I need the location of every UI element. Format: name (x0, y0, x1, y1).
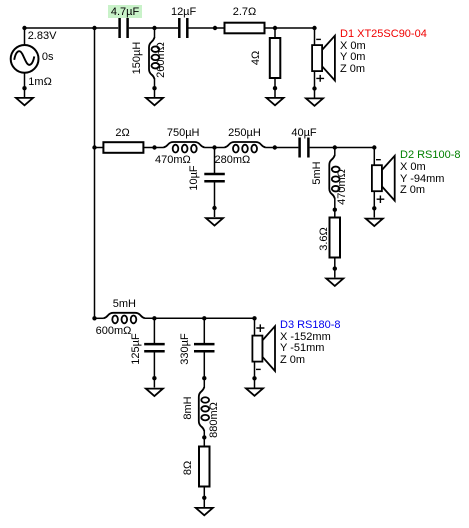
label C6 value 330uF (181, 333, 193, 364)
capacitor C6 330uF (194, 344, 215, 351)
label C3 value 40uF (291, 128, 316, 140)
resistor R5 8ohm (199, 447, 210, 487)
wire bus1 seg d (265, 27, 315, 29)
capacitor C1 4.7uF (120, 18, 128, 38)
label L2 resistance 470mohm (155, 155, 191, 167)
label R5 value 8ohm (183, 461, 195, 475)
node dots row2 (92, 145, 376, 270)
wire bus2 seg e (310, 147, 375, 149)
label R3 value 2ohm (115, 128, 129, 140)
ground D3 (246, 388, 263, 395)
wire R2 shunt top (274, 28, 276, 38)
D3 minus sign (256, 368, 261, 370)
wire D2 top (373, 148, 375, 166)
wire R2 shunt bottom (274, 78, 276, 97)
capacitor C4 10uF (204, 174, 225, 181)
wire C6 top (203, 318, 205, 343)
label C1 value 4.7uF highlighted (108, 5, 142, 18)
wire C6 to L6 (203, 352, 205, 388)
wire L1 shunt top (154, 28, 156, 38)
ground C5 (146, 389, 163, 396)
resistor R3 2ohm (103, 142, 143, 153)
ground C4 (206, 218, 223, 225)
wire V1 bottom stub (24, 73, 26, 97)
capacitor C5 125uF (144, 344, 165, 351)
inductor L3 250uH (225, 142, 266, 153)
label L2 value 750uH (167, 128, 200, 140)
ground D2 (366, 219, 383, 226)
speaker D1 (312, 36, 335, 81)
wire L4 shunt top (334, 148, 336, 156)
speaker D3 text block (280, 320, 341, 367)
ground R5 (196, 508, 213, 515)
speaker D2 text block (400, 150, 461, 197)
inductor L6 8mH (199, 387, 209, 431)
wire C4 shunt top (214, 148, 216, 174)
speaker D3 (252, 326, 275, 371)
wire R4 to ground (334, 258, 336, 278)
wire L4 to R4 (334, 198, 336, 218)
label C2 value 12uF (171, 7, 196, 19)
label V1 delay 0s (42, 52, 54, 64)
D2 minus sign (376, 159, 381, 161)
wire bus3 seg a (95, 317, 104, 319)
label R4 value 3.6ohm (319, 227, 331, 251)
label L3 value 250uH (228, 128, 261, 140)
inductor L1 150uH (149, 37, 159, 79)
label L1 resistance 260mohm (157, 43, 169, 79)
speaker D1 text block (340, 29, 427, 76)
wire bus2 seg c (205, 147, 225, 149)
label R2 value 4ohm (251, 50, 263, 64)
voltage source V1 (11, 45, 39, 73)
label L5 resistance 600mohm (96, 326, 132, 338)
inductor L4 5mH (329, 155, 339, 199)
wire V1 top stub (24, 28, 26, 45)
ground L1 (146, 98, 163, 105)
label L5 value 5mH (113, 299, 136, 311)
wire bus1 seg c (189, 27, 225, 29)
inductor L2 750uH (164, 142, 205, 153)
wire C5 shunt bottom (153, 352, 155, 388)
capacitor C2 12uF (179, 18, 187, 38)
inductor L5 5mH woofer (104, 313, 146, 324)
label L6 value 8mH (183, 397, 195, 420)
label C4 value 10uF (189, 165, 201, 190)
D1 plus sign (316, 75, 324, 82)
wire L6 to R5 (203, 431, 205, 447)
capacitor C3 40uF (300, 138, 309, 158)
wire L1 shunt bottom (154, 79, 156, 98)
wire C5 shunt top (153, 318, 155, 343)
D3 plus sign (256, 324, 264, 332)
label C5 value 125uF (131, 333, 143, 364)
resistor R4 3.6ohm (330, 218, 341, 258)
node dots row1 (22, 26, 316, 91)
label L3 resistance 280mohm (215, 155, 251, 167)
label R1 value 2.7ohm (233, 7, 257, 19)
label L1 value 150uH (132, 41, 144, 74)
wire bus2 seg b (144, 147, 164, 149)
resistor R2 4ohm (270, 38, 281, 78)
D1 minus sign (316, 38, 321, 40)
label L4 resistance 470mohm (337, 169, 349, 205)
label V1 voltage 2.83V (28, 31, 57, 43)
wire bus2 seg a (95, 147, 104, 149)
wire C4 shunt bottom (214, 182, 216, 217)
resistor R1 2.7ohm (225, 23, 265, 34)
ground V1 (16, 98, 33, 105)
label L6 resistance 880mohm (210, 402, 222, 438)
label C1 value text (111, 7, 139, 19)
ground R2 (267, 98, 284, 105)
wire bus2 seg d (266, 147, 299, 149)
wire D1 bottom (314, 71, 316, 98)
wire D1 top (314, 28, 316, 46)
label L4 value 5mH (312, 161, 324, 184)
ground D1 (306, 98, 323, 105)
speaker D2 (372, 156, 395, 201)
node dots row3 (92, 316, 256, 500)
wire bus1 seg b (129, 27, 178, 29)
wire D3 top (254, 318, 256, 336)
wire D3 bottom (254, 361, 256, 388)
D2 plus sign (377, 196, 385, 204)
wire D2 bottom (373, 191, 375, 218)
wire vertical feed (94, 28, 96, 318)
label V1 impedance 1mohm (28, 77, 52, 89)
wire bus1 seg a (25, 27, 119, 29)
wire bus3 seg b (145, 317, 255, 319)
ground R4 (326, 279, 343, 286)
wire R5 to ground (203, 486, 205, 507)
